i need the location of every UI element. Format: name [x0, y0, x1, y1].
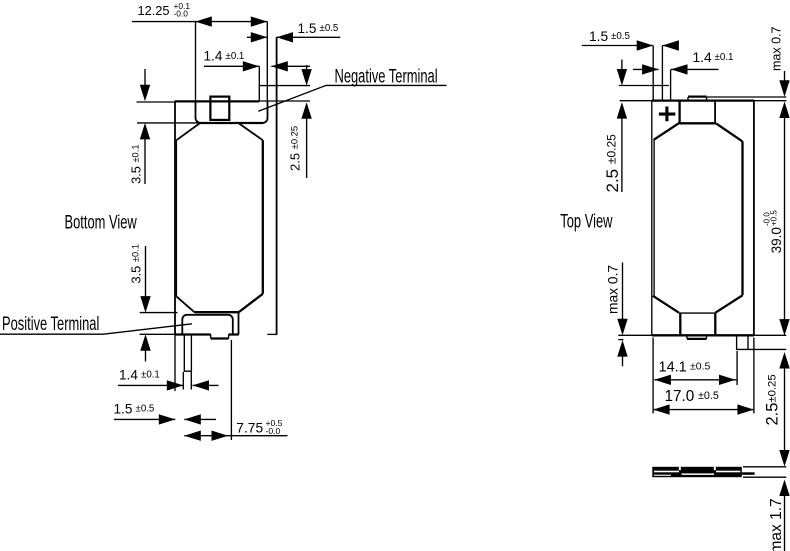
dim 17.0 arrows	[653, 404, 670, 414]
side view: solder tab right	[742, 472, 755, 475]
svg-text:max 0.7: max 0.7	[770, 26, 784, 71]
extension line cap bottom y=122.9	[137, 122, 200, 124]
svg-text:±0.5: ±0.5	[698, 390, 719, 402]
svg-text:±0.5: ±0.5	[690, 361, 711, 373]
dim max 1.7 column: down arrow	[784, 449, 786, 452]
leader line positive terminal	[0, 324, 192, 334]
dim 39.0 bottom arrow (down, shared with 2.5)	[779, 319, 789, 336]
top view: plus symbol	[659, 107, 675, 122]
top view: negative pad bump above top edge	[688, 95, 707, 97]
dim 7.75 line	[184, 435, 287, 437]
svg-text:1.5: 1.5	[114, 402, 133, 417]
top view: cap inner vertical	[678, 101, 680, 123]
dim 1.5 line (top view)	[582, 45, 679, 47]
dim 1.5 bottom line	[114, 418, 216, 420]
bottom view: cell octagon left side	[175, 140, 177, 296]
top view: envelope top edge	[652, 99, 754, 101]
dim 1.4 bottom arrows	[167, 380, 184, 390]
svg-text:Positive Terminal: Positive Terminal	[2, 314, 99, 335]
top view: envelope left edge	[651, 101, 653, 336]
bottom view: octagon top edge / cap bottom (merged)	[200, 122, 264, 124]
svg-text:1.4: 1.4	[204, 49, 223, 64]
bottom view: octagon top-left chamfer	[176, 123, 199, 140]
bottom view: positive solder tab	[184, 335, 191, 372]
bottom view: octagon bottom-left chamfer	[176, 296, 195, 312]
top view: octagon bottom-left chamfer	[653, 296, 679, 313]
dim 2.5 bottom-right: up arrow + tail	[779, 352, 789, 369]
svg-text:±0.5: ±0.5	[611, 31, 631, 42]
extension line cap left / 12.25	[195, 22, 197, 102]
bottom view: octagon bottom-right chamfer	[238, 294, 262, 313]
bottom view: negative terminal cap outline	[196, 101, 268, 123]
svg-text:±0.1: ±0.1	[141, 369, 160, 380]
dim 3.5 lower: up arrow + tail	[140, 334, 150, 351]
dim 1.4 arrows (top view)	[642, 64, 659, 74]
bottom view: envelope bottom right segment	[267, 333, 277, 335]
top view: octagon left side	[653, 140, 655, 296]
svg-text:±0.5: ±0.5	[320, 23, 339, 34]
side view: battery body bar	[652, 467, 742, 477]
dim 17.0 line	[653, 409, 754, 411]
extension lines from dims to body top (top view)	[653, 46, 670, 101]
top view: octagon right side	[741, 141, 743, 295]
dim 2.5 column: top arrow (down)	[306, 65, 308, 70]
extension line pad top y=85.6	[259, 85, 310, 87]
svg-text:Negative Terminal: Negative Terminal	[335, 66, 438, 87]
dim 2.5 column: bottom arrow (up) and tail	[301, 102, 311, 119]
top view: envelope bottom edge	[652, 334, 754, 336]
top view: pad bottom extension line y=339.6	[618, 339, 623, 341]
dim max 0.7 lower-left column	[622, 262, 624, 320]
bottom view: octagon bottom edge	[195, 311, 238, 313]
top view: tab bottom extension line y=349.4	[748, 348, 786, 350]
top view: cap right edge	[714, 101, 716, 124]
dim 3.5 upper column: down arrow	[144, 69, 146, 85]
dim 12.25 right arrow	[251, 16, 268, 26]
top view: solder tab notch bottom right	[737, 335, 748, 349]
top view: top edge thin extension left	[620, 100, 652, 102]
extension line pad top left y=85.5	[619, 85, 669, 87]
svg-text:±0.1: ±0.1	[226, 51, 245, 62]
extension line cap-right below x=231.4	[230, 340, 232, 440]
top view: octagon top-right chamfer	[716, 124, 742, 142]
svg-text:12.25: 12.25	[138, 3, 170, 18]
svg-text:max 1.7: max 1.7	[768, 498, 785, 551]
svg-text:1.4: 1.4	[119, 368, 138, 383]
top view: pad top extension line y=97	[707, 96, 787, 98]
dim 39.0 top arrow (up, shared with max 0.7)	[779, 102, 789, 119]
top view: envelope bottom thin extensions	[618, 334, 786, 336]
bottom view: positive terminal cap outline	[182, 315, 233, 335]
top view: positive pad bump below bottom	[687, 338, 707, 340]
extension line x=259.3	[258, 66, 260, 101]
svg-text:Top View: Top View	[560, 211, 612, 232]
top view: top edge thin extension right	[754, 100, 786, 102]
top view: octagon bottom edge	[679, 312, 716, 314]
bottom view: octagon top-right chamfer	[239, 123, 263, 140]
dim 1.4 line	[204, 65, 310, 67]
extension line cap right x=267.3	[266, 22, 268, 102]
bottom view: positive pad bump below cap	[211, 334, 229, 338]
bottom view: envelope right edge (also 1.5 extension line)	[276, 37, 278, 334]
extension line envelope-left below x=175.3	[174, 335, 176, 392]
svg-text:14.1: 14.1	[659, 360, 687, 376]
extension line top-left y=102	[137, 101, 176, 103]
dim 3.5 lower column: tail + down arrow	[145, 246, 147, 298]
dim 14.1 arrows	[654, 375, 671, 385]
dim 1.5 bottom arrows	[159, 414, 176, 424]
dim 14.1 line	[654, 379, 737, 381]
dim 1.4 right-pointing arrow	[243, 61, 260, 71]
svg-text:39.0: 39.0	[769, 227, 784, 253]
dim 12.25 left arrow	[195, 16, 212, 26]
leader line negative terminal	[258, 85, 446, 111]
top view: bottom cap box verticals	[680, 313, 715, 335]
svg-text:7.75: 7.75	[236, 421, 263, 436]
top view: envelope right edge	[753, 101, 755, 336]
dim 1.5 right-pointing arrow	[251, 32, 268, 42]
side view extension lines	[743, 467, 786, 477]
dim 2.5 column (top view): up arrow + tail	[617, 102, 627, 119]
svg-text:±0.5: ±0.5	[136, 403, 155, 414]
svg-text:1.4: 1.4	[693, 50, 713, 65]
svg-text:1.5: 1.5	[589, 29, 609, 44]
bottom view: envelope left edge	[174, 101, 176, 334]
bottom view: negative terminal tab	[210, 97, 229, 120]
extension segments below tab	[183, 372, 191, 390]
svg-text:-0.0: -0.0	[266, 426, 281, 436]
extension lines for 14.1/17.0	[653, 338, 754, 414]
dim 3.5 upper: up arrow + tail	[140, 123, 150, 139]
dim max 0.7 column (top right): down arrow	[784, 71, 786, 81]
dim 1.4 line (top view)	[633, 68, 719, 70]
dim max 1.7: up arrow + tail	[779, 480, 789, 497]
dim 1.4 bottom line	[118, 384, 219, 386]
dim 1.5 left-pointing arrow	[277, 32, 294, 42]
svg-text:-0.0: -0.0	[763, 212, 772, 226]
svg-text:Bottom View: Bottom View	[65, 212, 137, 233]
extension line envelope bottom y=334.3	[140, 333, 183, 335]
svg-text:±0.1: ±0.1	[715, 52, 734, 63]
top view: octagon top-left chamfer	[654, 123, 680, 140]
svg-text:-0.0: -0.0	[174, 9, 189, 19]
svg-text:17.0: 17.0	[665, 388, 695, 405]
extension line octagon bottom y=312.6	[140, 312, 178, 314]
bottom view: envelope bottom edge	[175, 333, 239, 335]
top view: octagon top edge	[680, 122, 717, 124]
dim 12.25 line	[132, 21, 267, 23]
bottom view: envelope top edge	[175, 100, 260, 102]
top view: octagon bottom-right chamfer	[715, 295, 742, 312]
svg-text:max 0.7: max 0.7	[606, 265, 621, 314]
dim 2.5 column (top view): down arrow	[621, 60, 623, 71]
dim 1.5 line	[247, 36, 340, 38]
bottom view: corner vertical below right chamfer	[238, 313, 240, 335]
bottom view: octagon right side	[262, 140, 264, 294]
svg-text:1.5: 1.5	[298, 21, 317, 36]
dim 7.75 arrows	[184, 431, 201, 441]
dim 1.5 arrows (top view)	[637, 40, 654, 50]
bottom view: envelope top edge thin extension to 2.5 dim	[259, 100, 310, 102]
side view: internal white slits	[654, 471, 679, 473]
dim 39.0 line upper tail	[784, 117, 786, 320]
dim 1.4 left-pointing arrow	[271, 61, 288, 71]
